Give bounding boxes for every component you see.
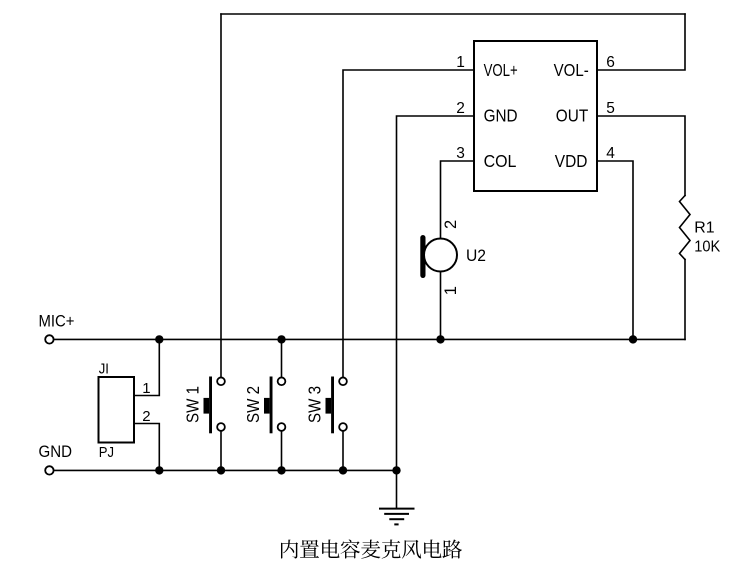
switch SW2 button	[264, 398, 270, 414]
switch SW2 bottom contact	[278, 423, 286, 431]
switch SW2 top contact	[278, 377, 286, 385]
microphone U2 circle	[424, 239, 457, 272]
svg-text:GND: GND	[39, 442, 73, 461]
junction dot MIC+ / VDD	[629, 335, 637, 343]
wire top net from SW1 column to VOL- column	[221, 13, 685, 15]
junction dot GND / JI2	[155, 466, 163, 474]
wire SW3 bottom lead	[342, 431, 344, 471]
wire pin 1 VOL+ left and down to SW3 top contact	[343, 70, 474, 378]
switch SW1 top contact	[217, 377, 225, 385]
svg-text:6: 6	[606, 54, 615, 71]
switch SW1 actuator bar	[209, 377, 212, 434]
wire vertical from top line down to SW1 top contact	[220, 14, 222, 378]
junction dot MIC+ / SW2	[277, 335, 285, 343]
switch SW1 bottom contact	[217, 423, 225, 431]
microphone U2 backplate bar	[420, 235, 425, 278]
wire pin 6 VOL- to right vertical riser	[597, 14, 685, 70]
svg-text:VOL-: VOL-	[554, 60, 589, 80]
wire R1 bottom lead down to MIC+ net	[684, 260, 686, 340]
svg-text:10K: 10K	[694, 239, 720, 256]
wire MIC+ net horizontal	[55, 338, 686, 340]
svg-text:5: 5	[606, 100, 615, 117]
wire connector JI pin 2 down to GND net	[134, 424, 159, 471]
caption glyph 电	[424, 540, 441, 559]
switch SW3 actuator bar	[331, 377, 334, 434]
ground symbol bars	[379, 509, 415, 525]
switch SW2 actuator bar	[270, 377, 273, 434]
svg-text:PJ: PJ	[99, 445, 114, 461]
switch SW3 bottom contact	[339, 423, 347, 431]
svg-text:MIC+: MIC+	[39, 311, 75, 330]
wire SW2 bottom lead	[281, 431, 283, 471]
junction dot MIC+ / mic	[436, 335, 444, 343]
junction dot MIC+ / JI1	[155, 335, 163, 343]
connector JI box	[99, 377, 135, 443]
svg-text:JI: JI	[99, 362, 109, 378]
wire SW1 bottom lead	[220, 431, 222, 471]
caption glyph 置	[300, 540, 319, 558]
wire GND net horizontal	[55, 469, 397, 471]
wire pin 5 OUT to R1 top lead	[597, 116, 685, 196]
svg-text:SW 3: SW 3	[304, 386, 324, 423]
switch SW3 top contact	[339, 377, 347, 385]
switch SW1 button	[204, 398, 210, 414]
wire pin 3 COL to microphone top lead	[441, 161, 475, 238]
terminal GND circle	[45, 466, 53, 474]
svg-text:GND: GND	[484, 106, 518, 126]
junction dot GND / SW2	[277, 466, 285, 474]
svg-text:SW 2: SW 2	[243, 386, 263, 423]
caption glyph 克	[382, 540, 401, 559]
svg-text:COL: COL	[484, 151, 517, 171]
svg-text:R1: R1	[694, 220, 714, 237]
svg-text:VDD: VDD	[555, 151, 588, 171]
svg-text:3: 3	[456, 145, 465, 162]
caption glyph 电	[322, 540, 339, 559]
svg-text:1: 1	[456, 54, 465, 71]
svg-text:2: 2	[456, 100, 465, 117]
wire pin 2 GND down to ground net	[397, 116, 475, 470]
svg-text:4: 4	[606, 145, 615, 162]
ground symbol stem	[396, 470, 398, 507]
caption glyph 路	[443, 540, 463, 559]
junction dot GND / ground	[392, 466, 400, 474]
wire connector JI pin 1 up to MIC+ net	[134, 339, 159, 395]
caption glyph 容	[341, 540, 360, 559]
caption glyph 麦	[361, 540, 380, 559]
IC U1 box	[474, 41, 597, 191]
svg-text:VOL+: VOL+	[484, 60, 518, 80]
resistor R1 zigzag	[680, 196, 691, 260]
svg-text:OUT: OUT	[556, 106, 589, 126]
switch SW3 button	[326, 398, 332, 414]
junction dot GND / SW3	[339, 466, 347, 474]
svg-text:1: 1	[442, 286, 460, 295]
wire SW2 top lead	[281, 339, 283, 377]
terminal MIC+ circle	[45, 335, 53, 343]
svg-text:2: 2	[142, 408, 150, 425]
svg-text:U2: U2	[466, 247, 486, 265]
svg-text:1: 1	[142, 380, 150, 397]
wire microphone bottom lead	[440, 273, 442, 340]
caption glyph 内	[281, 540, 298, 559]
caption glyph 风	[402, 540, 421, 559]
svg-text:SW 1: SW 1	[182, 386, 202, 423]
junction dot GND / SW1	[217, 466, 225, 474]
svg-text:2: 2	[442, 220, 460, 229]
wire pin 4 VDD down to MIC+ net	[597, 161, 633, 339]
